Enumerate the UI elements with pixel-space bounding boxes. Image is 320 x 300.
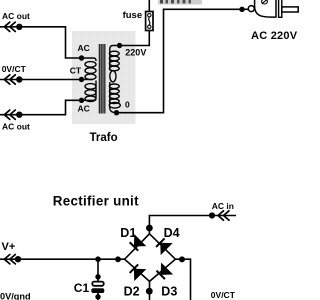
diode D2 [128,263,146,281]
svg-text:Rectifier unit: Rectifier unit [53,193,139,208]
wire 0V/CT [0,79,82,81]
bridge node dot top [146,225,153,232]
svg-text:D1: D1 [120,226,136,240]
wire C1 bottom [97,293,99,300]
bridge node dot bottom [146,288,153,295]
node dot V+ [15,256,21,262]
node dot C1 bottom lead [95,294,100,299]
node dot AC out top [16,24,22,30]
svg-text:D2: D2 [124,284,140,298]
cut-off title strip at top [158,0,202,5]
wire AC out bottom [0,100,82,114]
node dot 0V/CT [16,76,22,82]
wire AC out top [0,27,82,58]
svg-text:0V/CT: 0V/CT [2,64,27,74]
wire primary top to fuse [120,31,150,46]
node dot C1 top lead [95,274,100,279]
svg-text:V+: V+ [2,241,16,253]
capacitor C1 negative plate [91,288,104,293]
node dot at plug pin [239,7,244,12]
svg-text:C1: C1 [74,281,90,295]
bridge diamond wires [125,234,176,282]
svg-text:0V/CT: 0V/CT [211,290,236,300]
terminal arrow AC out top [4,22,15,31]
secondary tap dot AC top [79,55,84,60]
primary terminal dot 220V [117,43,122,48]
node dot C1 junction [95,256,101,262]
svg-text:AC: AC [78,104,90,114]
node dot AC in [209,212,215,218]
transformer shaded box [72,31,136,124]
primary terminal dot 0 [114,110,119,115]
svg-text:0: 0 [125,100,130,110]
capacitor C1 positive plate [92,282,103,286]
svg-text:0V/gnd: 0V/gnd [0,292,31,300]
svg-text:D3: D3 [161,284,177,298]
fuse F1 [146,12,153,31]
diode D1 [128,234,146,252]
diode D4 [154,237,172,255]
transformer primary winding [109,46,120,113]
wire V+ [0,258,125,260]
node dot AC out bottom [16,112,22,118]
svg-text:Trafo: Trafo [90,132,118,144]
svg-text:AC in: AC in [212,201,234,211]
svg-text:AC out: AC out [2,121,30,131]
svg-text:AC 220V: AC 220V [251,30,298,42]
svg-text:D4: D4 [164,226,180,240]
wire fuse top to edge [148,0,150,12]
bridge node dot left [115,256,121,262]
terminal arrow V+ [4,255,15,264]
transformer secondary winding [82,58,97,102]
terminal arrow AC out bottom [4,110,15,119]
secondary tap dot AC bottom [79,98,84,103]
capacitor C1 branch wire [97,259,99,281]
svg-text:fuse: fuse [123,10,143,21]
terminal arrow AC in [218,211,229,220]
svg-text:CT: CT [70,65,82,75]
wire primary bottom to plug (0 line) [117,9,249,112]
svg-text:AC out: AC out [2,11,30,21]
plug body AC 220V [255,0,299,17]
wire AC in [149,216,236,234]
terminal arrow 0V/CT [4,75,15,84]
svg-text:AC: AC [78,43,90,53]
wire bottom node down [149,281,151,300]
secondary tap dot CT [79,77,84,82]
plug pin circle [248,6,254,12]
diode D3 [155,263,173,281]
svg-text:220V: 220V [125,48,146,58]
wire right node to 0V/CT [175,259,190,300]
bridge node dot right [179,256,185,262]
transformer core [99,44,104,114]
